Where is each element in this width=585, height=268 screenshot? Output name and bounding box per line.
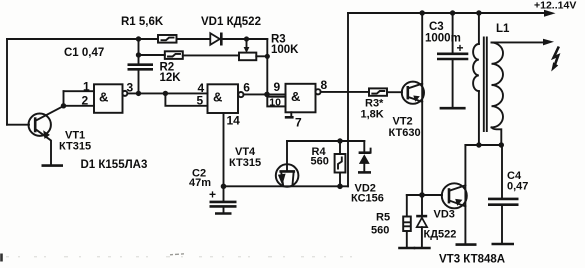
node L1 left bottom bbox=[476, 142, 481, 147]
svg-text:100K: 100K bbox=[271, 44, 299, 56]
core L1 bbox=[484, 38, 487, 132]
ground C2 bbox=[215, 212, 232, 215]
node pins 9/10 junction bbox=[264, 92, 270, 98]
wire pin8 to R3* bbox=[321, 91, 369, 93]
arrow power rail bbox=[544, 10, 556, 17]
wire VT3 base bbox=[407, 194, 442, 196]
wire VT2 collector-emitter vertical bbox=[421, 13, 423, 195]
wire R3* to VT2 base bbox=[387, 91, 402, 93]
gate D1.2 bbox=[208, 84, 244, 113]
transistor VT2 bbox=[402, 82, 424, 104]
wire left vertical bbox=[6, 39, 8, 125]
inductor L1 left winding bbox=[473, 13, 479, 145]
ground C4 bbox=[492, 243, 515, 246]
wire C1 vertical top bbox=[138, 39, 140, 64]
node L1 right bottom bbox=[499, 142, 504, 147]
svg-text:C1 0,47: C1 0,47 bbox=[64, 47, 104, 59]
svg-text:C3: C3 bbox=[429, 21, 444, 33]
svg-text:12K: 12K bbox=[160, 72, 182, 84]
svg-text:&: & bbox=[99, 90, 108, 105]
svg-text:47m: 47m bbox=[189, 177, 211, 189]
svg-text:1,8K: 1,8K bbox=[361, 109, 384, 121]
diode VD3 bbox=[416, 195, 427, 247]
svg-text:+12..14V: +12..14V bbox=[534, 0, 576, 12]
diode VD1 bbox=[210, 33, 221, 46]
zener VD2 bbox=[359, 141, 371, 172]
node C3 top bbox=[450, 10, 455, 15]
svg-text:L1: L1 bbox=[496, 23, 510, 35]
capacitor C1 bbox=[128, 65, 154, 70]
svg-text:&: & bbox=[291, 89, 300, 104]
wiper arrow of R3 bbox=[244, 41, 250, 53]
node C2 junction bbox=[221, 184, 227, 190]
gate D1.1 bbox=[94, 84, 127, 113]
ground VT3 bbox=[456, 243, 477, 246]
svg-text:КТ315: КТ315 bbox=[229, 157, 261, 169]
node L1 top bbox=[476, 10, 481, 15]
capacitor C4 bbox=[488, 145, 519, 243]
svg-text:9: 9 bbox=[274, 80, 281, 94]
node VD3 top bbox=[419, 192, 425, 198]
wire L1 bottom bbox=[465, 144, 502, 146]
spark symbol bbox=[554, 47, 559, 65]
node R4 bottom bbox=[337, 184, 343, 190]
node VT2 collector top bbox=[420, 10, 425, 15]
ground VD2 bbox=[358, 171, 371, 174]
svg-text:VT2: VT2 bbox=[393, 116, 413, 128]
wire top rail left bbox=[7, 38, 158, 40]
wire C1 to gate output bbox=[138, 70, 140, 94]
wire VT3 collector-emitter vertical bbox=[464, 145, 466, 244]
node R4 top bbox=[337, 138, 342, 143]
ground R5 bbox=[398, 247, 415, 250]
transistor VT4 bbox=[276, 141, 299, 187]
transistor VT1 bbox=[7, 106, 64, 165]
node R2 left junction bbox=[136, 52, 141, 57]
svg-text:1: 1 bbox=[83, 80, 90, 94]
wire R1 to VD1 bbox=[177, 38, 211, 40]
resistor R1 bbox=[158, 35, 177, 43]
inductor L1 right winding bbox=[492, 43, 504, 145]
transistor VT3 bbox=[442, 183, 467, 208]
node pin2 junction bbox=[61, 103, 66, 108]
resistor R5 bbox=[403, 195, 411, 247]
capacitor C2 bbox=[209, 186, 237, 213]
svg-text:VD1 КД522: VD1 КД522 bbox=[201, 16, 261, 28]
svg-text:2: 2 bbox=[82, 93, 89, 107]
wire pin 1 bbox=[64, 90, 95, 92]
wire VD1 to corner bbox=[222, 38, 267, 40]
gate D1.3 bbox=[286, 84, 321, 113]
svg-text:D1 К155ЛА3: D1 К155ЛА3 bbox=[81, 159, 148, 171]
wire VT1 collector riser bbox=[63, 91, 65, 106]
svg-text:&: & bbox=[213, 90, 222, 105]
wire right vertical x267 bbox=[266, 39, 268, 94]
svg-text:VT3 КТ848А: VT3 КТ848А bbox=[439, 254, 505, 266]
wire R3 to vertical bbox=[256, 55, 267, 57]
svg-text:+: + bbox=[209, 188, 216, 202]
node R3 wiper junction bbox=[244, 36, 249, 41]
svg-text:R1 5,6K: R1 5,6K bbox=[121, 16, 164, 28]
resistor R2 bbox=[165, 51, 183, 59]
svg-text:10: 10 bbox=[269, 96, 281, 108]
wire pin 10 loop bbox=[267, 97, 285, 107]
wire top power rail bbox=[348, 12, 545, 14]
wire main vertical x348 bbox=[347, 13, 349, 186]
svg-text:14: 14 bbox=[227, 114, 241, 128]
arrow spark output bbox=[543, 39, 554, 46]
svg-text:560: 560 bbox=[371, 225, 389, 237]
svg-text:5: 5 bbox=[197, 94, 204, 108]
wire R2 row bbox=[139, 54, 165, 56]
wire pin 5 branch bbox=[165, 93, 207, 105]
capacitor C3 bbox=[437, 13, 468, 108]
svg-text:0,47: 0,47 bbox=[507, 181, 528, 193]
ground VT1 bbox=[42, 164, 64, 167]
svg-text:КТ630: КТ630 bbox=[389, 127, 421, 139]
wire bottom rail bbox=[224, 185, 349, 187]
wire R2 to R3 bbox=[183, 54, 239, 56]
wire pin 2 bbox=[64, 105, 95, 107]
wire spark output bbox=[492, 41, 545, 43]
resistor R4 bbox=[335, 141, 346, 186]
svg-text:R5: R5 bbox=[376, 212, 390, 224]
node C1 top junction bbox=[136, 36, 141, 41]
svg-text:7: 7 bbox=[295, 115, 302, 129]
svg-text:КТ315: КТ315 bbox=[59, 141, 91, 153]
wire pin 14 down bbox=[223, 113, 225, 186]
ground VD3 bbox=[414, 247, 431, 250]
svg-text:VD3: VD3 bbox=[434, 209, 455, 221]
node pin5 branch bbox=[163, 91, 168, 96]
scan artifact bottom line bbox=[6, 256, 360, 258]
svg-text:560: 560 bbox=[311, 156, 329, 168]
svg-text:8: 8 bbox=[321, 78, 328, 92]
svg-text:6: 6 bbox=[243, 81, 250, 95]
wire VT4 top rail bbox=[287, 140, 364, 142]
node C1 bottom junction bbox=[136, 91, 141, 96]
wire gate2 out to gate3 bbox=[244, 93, 286, 95]
svg-text:КС156: КС156 bbox=[351, 193, 384, 205]
ground C3 bbox=[440, 107, 466, 110]
node R3 right lead bbox=[265, 54, 270, 59]
potentiometer R3 bbox=[239, 53, 256, 61]
wire gate1 out to gate2 pin4 bbox=[127, 92, 207, 94]
resistor R3* bbox=[369, 88, 387, 95]
svg-text:1000m: 1000m bbox=[425, 33, 461, 45]
svg-text:КД522: КД522 bbox=[424, 229, 457, 241]
pin 7 stub bbox=[285, 112, 294, 117]
